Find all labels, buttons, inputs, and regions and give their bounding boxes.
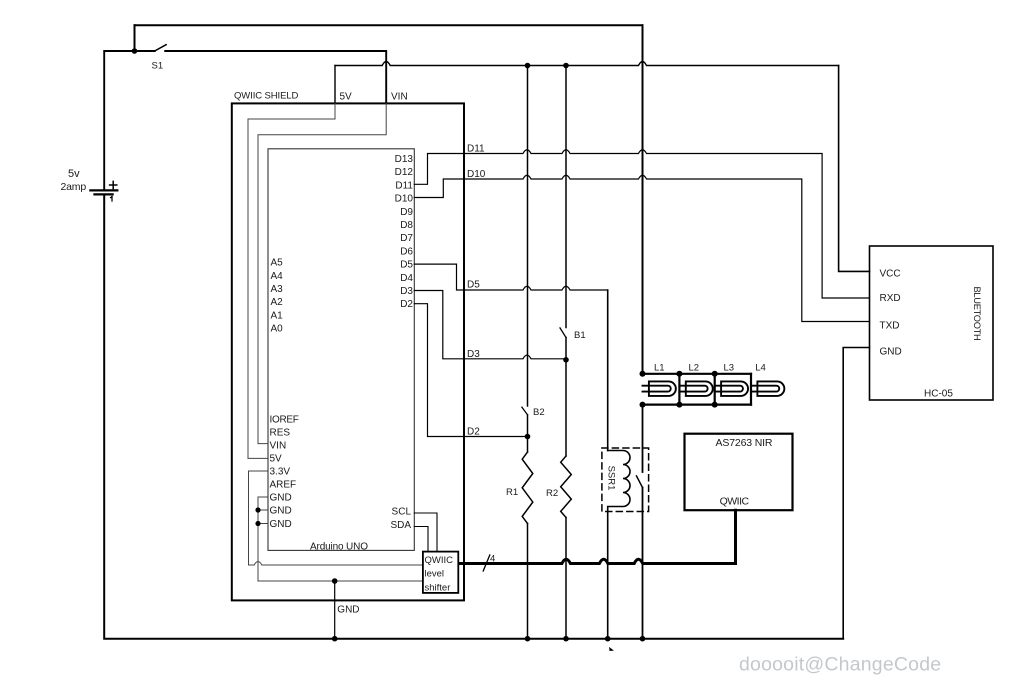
svg-text:D9: D9 (400, 207, 413, 218)
svg-text:SSR1: SSR1 (605, 466, 616, 491)
svg-text:5v: 5v (68, 168, 80, 180)
svg-text:shifter: shifter (425, 582, 451, 593)
svg-text:B2: B2 (533, 407, 545, 418)
svg-text:dooooit@ChangeCode: dooooit@ChangeCode (739, 654, 941, 676)
svg-text:GND: GND (270, 506, 292, 517)
svg-text:D8: D8 (400, 220, 413, 231)
svg-text:L2: L2 (689, 363, 700, 374)
svg-text:GND: GND (270, 519, 292, 530)
svg-text:AREF: AREF (270, 480, 297, 491)
svg-text:VCC: VCC (880, 268, 901, 279)
svg-text:A0: A0 (271, 324, 284, 335)
svg-text:R2: R2 (546, 488, 558, 499)
svg-text:BLUETOOTH: BLUETOOTH (972, 287, 982, 341)
svg-text:5V: 5V (340, 91, 353, 102)
svg-text:D2: D2 (467, 427, 480, 438)
svg-text:Arduino UNO: Arduino UNO (310, 541, 368, 552)
svg-text:4: 4 (490, 553, 495, 564)
svg-text:QWIIC: QWIIC (425, 555, 454, 566)
svg-text:A3: A3 (271, 284, 284, 295)
svg-text:D10: D10 (467, 169, 486, 180)
svg-text:R1: R1 (506, 487, 518, 498)
svg-text:SCL: SCL (392, 507, 412, 518)
svg-text:D7: D7 (400, 233, 413, 244)
svg-text:A2: A2 (271, 297, 284, 308)
svg-text:RXD: RXD (880, 293, 901, 304)
svg-text:SDA: SDA (390, 520, 411, 531)
svg-text:2amp: 2amp (61, 181, 87, 193)
svg-text:D12: D12 (395, 167, 414, 178)
svg-text:S1: S1 (152, 60, 164, 71)
svg-text:HC-05: HC-05 (924, 389, 953, 400)
svg-text:D3: D3 (467, 349, 480, 360)
svg-text:D10: D10 (395, 194, 414, 205)
svg-text:D2: D2 (400, 299, 413, 310)
svg-text:A1: A1 (271, 310, 284, 321)
svg-text:level: level (425, 569, 445, 580)
svg-text:L3: L3 (724, 363, 735, 374)
svg-text:5V: 5V (270, 454, 283, 465)
svg-text:GND: GND (337, 605, 359, 616)
svg-text:A5: A5 (271, 258, 284, 269)
svg-text:VIN: VIN (270, 441, 287, 452)
svg-text:GND: GND (270, 493, 292, 504)
svg-text:QWIIC SHIELD: QWIIC SHIELD (234, 91, 298, 102)
svg-text:L4: L4 (755, 363, 766, 374)
svg-text:AS7263 NIR: AS7263 NIR (716, 437, 773, 449)
svg-text:A4: A4 (271, 271, 284, 282)
svg-text:L1: L1 (654, 363, 665, 374)
svg-text:D5: D5 (467, 280, 480, 291)
svg-text:D11: D11 (467, 144, 485, 155)
svg-text:D4: D4 (400, 273, 413, 284)
svg-text:GND: GND (880, 347, 902, 358)
svg-text:D11: D11 (395, 180, 413, 191)
svg-text:VIN: VIN (391, 91, 408, 102)
svg-text:RES: RES (270, 428, 291, 439)
svg-text:3.3V: 3.3V (270, 467, 291, 478)
svg-text:D5: D5 (400, 260, 413, 271)
svg-text:D6: D6 (400, 246, 413, 257)
svg-text:B1: B1 (574, 330, 586, 341)
svg-text:D13: D13 (395, 154, 414, 165)
svg-text:D3: D3 (400, 286, 413, 297)
svg-text:QWIIC: QWIIC (720, 495, 750, 507)
svg-text:TXD: TXD (880, 321, 900, 332)
svg-text:IOREF: IOREF (270, 415, 299, 426)
